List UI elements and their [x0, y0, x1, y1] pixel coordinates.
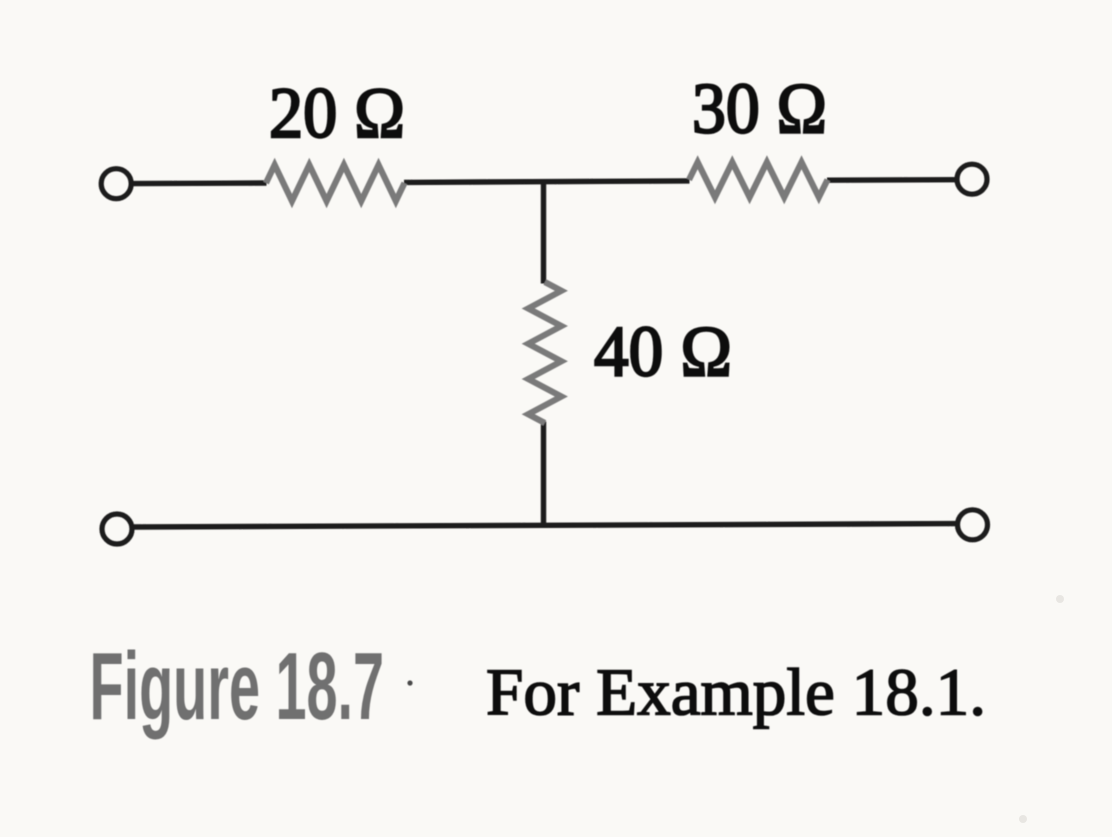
terminal: output port top-right (open circle): [957, 164, 987, 194]
svg-text:40 Ω: 40 Ω: [594, 312, 732, 392]
wire: bottom rail left segment: [133, 525, 544, 527]
svg-text:30 Ω: 30 Ω: [692, 69, 827, 149]
terminal: input port bottom-left (open circle): [102, 514, 132, 544]
wire: vertical branch lower segment: [541, 422, 546, 528]
wire: vertical branch upper segment: [541, 182, 546, 284]
wire: top rail middle segment: [404, 181, 690, 183]
resistor R3 40-ohm zigzag (shunt, vertical middle): [528, 282, 561, 423]
wire: top rail left segment: [131, 180, 267, 186]
svg-text:For Example 18.1.: For Example 18.1.: [486, 656, 986, 730]
terminal: input port top-left (open circle): [101, 169, 131, 199]
svg-text:20 Ω: 20 Ω: [269, 73, 405, 153]
speck: faint scan mark bottom right: [1019, 815, 1027, 823]
speck: small ink dot after figure number: [407, 680, 412, 685]
terminal: output port bottom-right (open circle): [958, 510, 988, 540]
resistor R2 30-ohm zigzag (series, top right): [689, 162, 828, 197]
svg-text:Figure 18.7: Figure 18.7: [90, 632, 385, 740]
wire: top rail right segment: [827, 177, 958, 183]
wire: bottom rail right segment: [544, 524, 959, 526]
resistor R1 20-ohm zigzag (series, top left): [266, 165, 405, 201]
speck: faint scan mark right middle: [1056, 595, 1064, 603]
